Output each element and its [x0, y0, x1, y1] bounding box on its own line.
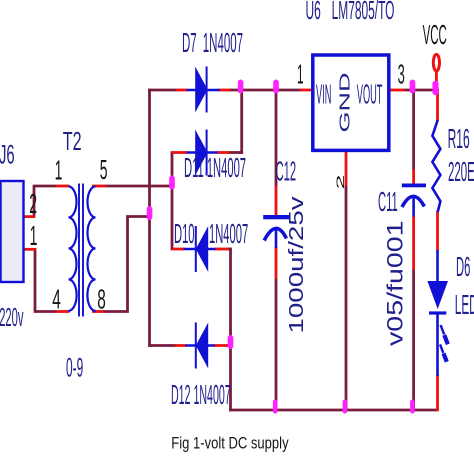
pin stub D10 anode: [215, 248, 229, 251]
resistor R16: [432, 120, 440, 212]
junction C11 / ground rail: [410, 400, 415, 414]
svg-text:LM7805/TO: LM7805/TO: [332, 0, 395, 25]
svg-text:Fig 1-volt DC supply: Fig 1-volt DC supply: [171, 435, 289, 453]
junction VCC node: [432, 81, 438, 95]
capacitor C12: [263, 215, 289, 248]
svg-text:2: 2: [334, 174, 347, 189]
transformer T2: [69, 184, 96, 317]
pin stub T2 pin1: [56, 185, 70, 188]
svg-text:3: 3: [398, 58, 405, 90]
diode D10 1N4007: [184, 226, 216, 272]
svg-text:D10: D10: [174, 218, 195, 250]
svg-text:C11: C11: [378, 186, 398, 218]
pin stub D10 cathode: [172, 248, 185, 251]
junction pin5 / AC1 bus: [169, 176, 175, 190]
pin stub C12 top: [275, 186, 278, 216]
pin stub U6 pin1: [300, 89, 312, 92]
pin stub J6 pin1: [24, 248, 36, 251]
wire transformer pin5 run: [105, 185, 174, 188]
wire D11 cathode run: [228, 151, 243, 154]
LED D6: [427, 250, 448, 376]
svg-text:LED: LED: [455, 289, 474, 320]
svg-text:220v: 220v: [0, 304, 23, 333]
pin stub C11 bottom: [412, 216, 415, 271]
svg-text:D6: D6: [456, 251, 470, 283]
pin stub U6 pin2: [345, 152, 348, 186]
svg-text:C12: C12: [276, 156, 297, 188]
wire C11 bottom branch: [412, 269, 415, 411]
pin stub D12 cathode: [175, 344, 187, 347]
wire D12 cathode run: [148, 344, 176, 347]
label D10 value: [174, 218, 248, 250]
svg-text:1: 1: [30, 220, 38, 252]
junction C12 / ground rail: [273, 400, 278, 414]
pin stub D7 anode: [176, 89, 188, 92]
svg-text:4: 4: [52, 284, 61, 315]
svg-text:J6: J6: [0, 139, 15, 170]
pin stub VCC riser: [435, 72, 438, 91]
connector J6: [1, 181, 24, 282]
capacitor C11: [402, 184, 426, 217]
svg-text:GND: GND: [336, 73, 353, 133]
pin stub R16 top lead: [436, 89, 439, 121]
junction D11 cathode / top rail: [238, 80, 244, 94]
wire vertical AC1 bus: [171, 151, 174, 250]
svg-text:VIN: VIN: [316, 79, 331, 110]
svg-text:v05/fu001: v05/fu001: [384, 220, 408, 346]
wire J6 pin2 to T2 pin1: [33, 186, 57, 218]
svg-text:220E: 220E: [448, 156, 474, 187]
svg-text:T2: T2: [63, 126, 82, 156]
svg-text:1: 1: [55, 154, 63, 186]
svg-text:0-9: 0-9: [66, 353, 83, 383]
wire U6 pin2 ground drop: [345, 186, 348, 412]
diode D12 1N4007: [186, 323, 215, 369]
svg-text:8: 8: [97, 284, 106, 315]
pin stub R16 bottom lead: [436, 211, 439, 251]
svg-text:1000uf/25v: 1000uf/25v: [285, 195, 308, 333]
svg-text:1: 1: [297, 59, 304, 90]
pin stub U6 pin3: [390, 89, 405, 92]
wire D10 anode run: [227, 248, 232, 251]
pin stub D11 cathode: [217, 151, 230, 154]
pin stub J6 pin2: [24, 215, 35, 218]
pin stub C12 bottom: [275, 247, 278, 279]
pin stub T2 pin4: [56, 310, 70, 313]
wire transformer pin8 branch: [103, 217, 151, 312]
diode D7 1N4007: [187, 67, 220, 113]
wire top rail D7 cathode to U6 pin1: [229, 89, 301, 92]
wire vertical AC2 bus: [148, 89, 151, 347]
svg-text:D11 1N4007: D11 1N4007: [184, 152, 246, 184]
pin stub D11 anode: [172, 151, 188, 154]
wire U6 pin3 run: [404, 89, 439, 92]
regulator U6 LM7805: [313, 55, 389, 150]
svg-text:VCC: VCC: [423, 19, 447, 50]
VCC terminal: [433, 54, 439, 71]
pin stub T2 pin8: [92, 310, 104, 313]
wire C11 top branch: [412, 89, 415, 170]
svg-text:1N4007: 1N4007: [209, 218, 248, 250]
svg-text:R16: R16: [448, 122, 470, 154]
svg-text:D7: D7: [182, 27, 197, 58]
wire C12 top branch: [275, 89, 278, 187]
wire D12 anode run: [226, 344, 232, 347]
svg-text:D12 1N4007: D12 1N4007: [171, 380, 231, 410]
diode D11 1N4007: [187, 130, 218, 176]
svg-text:VOUT: VOUT: [357, 79, 383, 110]
svg-text:2: 2: [29, 188, 37, 220]
pin stub D7 cathode: [219, 89, 231, 92]
junction D12 anode / negative bus: [228, 335, 234, 349]
svg-text:5: 5: [100, 154, 108, 186]
wire C12 bottom branch: [275, 278, 278, 411]
label D7 value: [182, 27, 243, 58]
junction C12 / top rail: [273, 80, 279, 94]
junction C11 / pin3 run: [410, 80, 416, 94]
wire D7 anode feed: [148, 89, 177, 92]
pin stub T2 pin5: [92, 185, 106, 188]
junction U6 pin2 / ground rail: [343, 400, 348, 414]
pin stub LED bottom lead: [436, 375, 439, 411]
junction pin8 / AC2 bus: [147, 206, 153, 220]
label U6 refdes: [306, 0, 395, 25]
wire D11 cathode riser: [240, 89, 243, 154]
wire bottom ground rail: [229, 409, 437, 412]
pin stub C11 top: [412, 169, 415, 186]
pin stub D12 anode: [214, 344, 228, 347]
svg-text:1N4007: 1N4007: [203, 27, 243, 58]
wire negative bus vertical: [229, 248, 232, 412]
wire J6 pin1 to T2 pin4: [34, 248, 57, 312]
svg-text:U6: U6: [306, 0, 321, 25]
